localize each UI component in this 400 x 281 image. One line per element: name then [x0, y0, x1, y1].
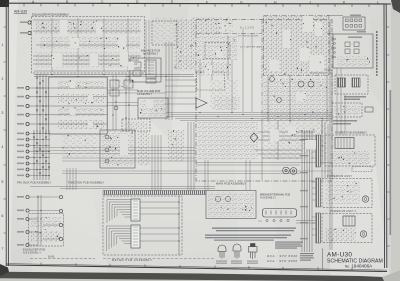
wires volume to main pcb	[165, 80, 196, 104]
bottom shadow band	[0, 272, 394, 281]
vertical bundle right of main pcb	[322, 120, 328, 178]
phones jack 2	[352, 78, 360, 87]
tape jack stub wires	[29, 134, 50, 176]
flat amp dashed sub-box	[152, 21, 177, 45]
svg-text:MAIN PCB ASSEMBLY: MAIN PCB ASSEMBLY	[216, 182, 246, 186]
phones jack 1	[338, 78, 346, 87]
svg-text:DCA : STK 8040: DCA : STK 8040	[267, 254, 297, 258]
power block 2 dashed	[322, 179, 372, 208]
svg-text:ST PRODUCER: ST PRODUCER	[238, 36, 258, 38]
AC outlet	[360, 231, 366, 237]
svg-text:POWER/CB ASSY 2: POWER/CB ASSY 2	[330, 210, 357, 213]
transformer T2	[343, 216, 355, 226]
note text line 2	[205, 235, 291, 236]
rear jack junction dots	[37, 196, 41, 232]
eq component cluster row3	[36, 52, 140, 68]
function transistors Q5 Q6 Q7	[105, 135, 109, 139]
eq-to-selector wires	[34, 75, 194, 77]
meter IC2	[131, 225, 140, 248]
power amp lower cluster	[263, 122, 327, 160]
bottom ruler tick marks	[41, 263, 352, 271]
harness-to-block stub wires	[312, 140, 316, 235]
rear jack stub wires	[29, 197, 59, 245]
op-amp U1 triangle	[196, 98, 207, 108]
relay box components	[208, 192, 254, 217]
breaker terminal strip	[263, 209, 297, 218]
power block2 components	[326, 181, 360, 204]
svg-text:EQUALIZER PCB ASSEMBLY: EQUALIZER PCB ASSEMBLY	[32, 13, 69, 17]
loudness components	[124, 121, 148, 129]
right column vertical wires	[330, 20, 332, 250]
jack labels	[20, 21, 27, 23]
driver transistors Q3 Q4	[270, 77, 275, 82]
svg-text:A-1200: A-1200	[240, 27, 255, 30]
frame: bottom ruler line (sloped)	[6, 265, 387, 272]
protection pin circles left	[334, 38, 336, 58]
svg-text:AM-U30: AM-U30	[327, 252, 352, 259]
phones jack PCB label	[344, 96, 366, 98]
input jack column (tuner/cd/aux)	[26, 86, 29, 125]
transformer T1	[335, 138, 354, 149]
power connector strip 3	[316, 213, 321, 243]
vertical drops center bottom	[205, 160, 250, 190]
protection inner squares	[345, 42, 359, 54]
long wires function to main	[33, 148, 196, 162]
function switch solid box	[100, 130, 135, 168]
svg-text:POWER PCB ASSEMBLY: POWER PCB ASSEMBLY	[335, 131, 367, 135]
wires bottom center horizontals	[30, 187, 215, 189]
phones jack PCB dashed box	[335, 75, 368, 94]
UL note small text	[275, 242, 303, 249]
AC plug P1	[362, 196, 368, 202]
long wires to record out	[62, 171, 332, 174]
svg-text:4: 4	[2, 145, 4, 149]
tape jack labels	[17, 133, 24, 177]
meter connector strip	[103, 191, 206, 195]
paper wrinkle shading	[0, 0, 18, 281]
svg-text:ASSEMBLY: ASSEMBLY	[260, 197, 276, 200]
speaker PCB assembly vertical text	[376, 31, 378, 76]
rec out components column	[138, 131, 150, 165]
power connector strip 2	[316, 178, 321, 207]
mid dashed sub-box	[197, 72, 225, 90]
selector PCB solid outline	[49, 77, 107, 134]
transistor package TO-92 drawing	[218, 245, 226, 259]
main horizontal wire bundle	[166, 113, 332, 121]
junction dots on eq-selector wires	[51, 74, 166, 77]
scanner background right of paper edge	[391, 0, 400, 281]
rear jack components row1	[31, 217, 61, 227]
wires between EQ and flat amp	[146, 20, 149, 75]
svg-text:ASSEMBLY: ASSEMBLY	[23, 251, 41, 255]
speaker terminal label	[350, 15, 361, 17]
rec switch cluster	[168, 130, 184, 162]
tone lower cluster	[197, 62, 231, 76]
mid components cluster	[210, 80, 238, 110]
svg-text:AM-U30: AM-U30	[14, 10, 27, 14]
svg-text:B ASL: B ASL	[48, 256, 55, 259]
bal/vol long verticals right	[166, 42, 172, 120]
jack labels column2	[17, 87, 24, 125]
jack-to-bus horizontal wires	[29, 88, 107, 124]
dashed signal line B	[30, 258, 95, 260]
svg-text:F: F	[206, 0, 208, 4]
protection lower components	[337, 56, 370, 66]
selector row 2 components	[58, 94, 104, 103]
vertical wires to meter	[152, 135, 161, 192]
eq internal wires	[33, 20, 144, 71]
head phone PCB label	[333, 120, 357, 122]
tape bus vertical wires	[34, 130, 49, 180]
vertical wires power amp	[262, 76, 327, 180]
wires speaker area down	[337, 68, 345, 135]
protection label	[348, 37, 362, 39]
function left cluster	[62, 133, 97, 157]
tape jack column circles	[26, 132, 29, 177]
svg-text:6: 6	[2, 214, 4, 218]
bottom row cluster	[198, 122, 258, 160]
svg-text:FUNCTION PCB ASSEMBLY: FUNCTION PCB ASSEMBLY	[68, 181, 104, 185]
vertical wires center	[200, 28, 252, 112]
headphone amp dashed box	[332, 103, 362, 117]
selector row 1 components	[58, 80, 104, 89]
power amp upper dense cluster	[263, 16, 329, 76]
power block1 components	[330, 151, 370, 164]
right paper-edge shadow line	[390, 90, 392, 235]
rear jack dashed box	[29, 214, 64, 247]
meter right wires	[140, 202, 179, 241]
phono input jack J1	[28, 21, 31, 24]
function switch components	[102, 132, 133, 167]
pre-out jacks right column	[59, 195, 62, 240]
wires across volume area	[107, 90, 166, 106]
main PCB internal dash-dot divider horizontal	[196, 33, 262, 35]
volume pot circle	[114, 106, 118, 110]
rear jack vertical wires	[38, 195, 41, 246]
power amp mid cluster	[263, 78, 329, 120]
svg-text:2: 2	[2, 77, 4, 81]
speaker terminal squares row1	[346, 19, 362, 27]
DCA ACA handwritten note	[266, 254, 297, 263]
frame: left ruler double line	[6, 3, 8, 266]
tone dashed sub-box	[205, 43, 230, 59]
equalizer PCB assembly dashed outline	[32, 17, 145, 74]
power block 1 dashed	[325, 135, 375, 166]
bus junction dots	[36, 77, 46, 124]
meter nested wiring fan upper	[107, 200, 131, 224]
wires main to speaker blocks	[310, 16, 343, 74]
speaker terminal block	[343, 17, 365, 30]
svg-text:ACA : STK 8050: ACA : STK 8050	[266, 259, 297, 263]
meter nested wiring fan lower	[107, 226, 132, 251]
selector right boundary line	[106, 77, 108, 130]
volume top row component boxes	[110, 80, 133, 96]
speaker SP1	[283, 167, 290, 174]
volume top row texture	[110, 79, 134, 88]
eq component cluster row2	[40, 37, 140, 49]
scattered dark component accents	[35, 19, 370, 241]
breaker strip pins	[266, 211, 291, 215]
speaker selector label	[357, 31, 366, 33]
package labels	[216, 261, 258, 264]
paper-colored gaps to break texture uniformity	[52, 16, 324, 155]
transistor package TO-92L drawing	[233, 244, 241, 259]
main volume block components	[140, 100, 166, 116]
scanner background below paper	[0, 277, 400, 281]
wires main pcb to power connector	[255, 132, 315, 158]
bottom-right curled corner light patch	[382, 271, 400, 281]
headphone amp components	[334, 105, 360, 115]
relay/terminal box on main pcb	[206, 191, 256, 219]
rear jack components row2	[31, 231, 61, 242]
left ruler tick marks and digits	[3, 27, 6, 233]
svg-text:ASSEMBLY: ASSEMBLY	[143, 53, 158, 56]
rear jack circles	[26, 195, 29, 246]
svg-text:3: 3	[2, 111, 4, 115]
power block 3 dashed	[322, 214, 372, 243]
svg-text:J: J	[309, 1, 311, 5]
svg-text:7: 7	[2, 247, 4, 251]
top ruler tick marks	[24, 3, 369, 7]
selector row 3 components	[58, 107, 104, 116]
mid small cluster	[214, 96, 240, 110]
volume area long verticals	[113, 75, 129, 130]
power connector strip 1	[316, 135, 321, 167]
volume area junction dots	[112, 89, 129, 118]
svg-text:LF LIMITER AMP: LF LIMITER AMP	[240, 46, 263, 49]
relay transistor circles	[215, 196, 220, 201]
svg-text:ASSEMBLY: ASSEMBLY	[137, 93, 152, 96]
svg-text:L: L	[377, 1, 379, 5]
breaker output wires	[258, 221, 316, 224]
vertical wires function to meter strip	[67, 168, 76, 190]
svg-text:No. 1640406A: No. 1640406A	[345, 264, 373, 269]
balance block solid box	[130, 58, 161, 82]
transistor package TO-220 drawing	[249, 244, 258, 260]
power amp dash-dot sub-box	[264, 16, 330, 76]
power block3 components	[326, 228, 356, 241]
top ruler letters	[32, 0, 379, 5]
svg-text:POWER/CB ASSY: POWER/CB ASSY	[327, 175, 352, 178]
harness wire labels	[300, 139, 308, 239]
meter IC1	[131, 199, 140, 221]
loudness dashed box	[122, 119, 150, 131]
bundle junction dots	[199, 112, 322, 121]
note text line 1	[212, 228, 296, 229]
meter area dashes bottom	[103, 258, 215, 260]
bottom-left dark wedge	[0, 264, 9, 276]
selector row 4 components	[58, 120, 104, 129]
small switch box	[365, 107, 373, 112]
output transistors Q1 Q2	[298, 81, 304, 87]
flat amp component cluster (right of EQ)	[153, 18, 176, 45]
svg-text:PIN JACK PCB ASSEMBLY: PIN JACK PCB ASSEMBLY	[17, 181, 51, 185]
balance pot tall box	[146, 60, 156, 78]
UL CSA note block	[300, 253, 314, 261]
tape bus junction dots	[33, 133, 49, 176]
right ruler tick marks	[386, 27, 390, 246]
wires below bundle to power area	[196, 163, 332, 166]
protection relay block	[333, 34, 373, 68]
tape bus resistor ticks	[33, 136, 49, 174]
top-left black registration mark	[0, 0, 9, 7]
balance bottom tag	[146, 79, 156, 83]
vertical harness at x190	[188, 122, 194, 190]
meter right rail	[178, 196, 180, 255]
main PCB dash-dot outline	[196, 20, 332, 182]
frame: right border double line	[384, 4, 387, 268]
tone control dense cluster	[192, 17, 218, 35]
tone mid cluster	[197, 36, 237, 60]
breaker lower circles	[266, 219, 289, 221]
bus vertical wires	[37, 74, 46, 134]
phono input jack J2	[28, 31, 31, 34]
svg-text:1: 1	[2, 43, 4, 47]
components right of bal jack	[178, 55, 196, 73]
main volume block solid box	[138, 98, 168, 118]
svg-text:5: 5	[2, 180, 4, 184]
top-right dark scan edge	[391, 0, 400, 13]
frame: top ruler line	[6, 2, 391, 5]
title block left border	[322, 249, 324, 270]
balance inner square 2	[133, 70, 141, 76]
bus resistor ticks	[36, 82, 46, 129]
flat amp dense strip	[174, 19, 196, 70]
eq component cluster row1	[36, 21, 140, 34]
rear jack labels	[17, 196, 24, 246]
balance inner square 1	[133, 62, 141, 68]
fuse label box	[352, 167, 372, 172]
speaker SP2	[290, 168, 297, 175]
main PCB internal dash-dot divider vertical	[261, 20, 263, 121]
meter rail dots	[178, 201, 179, 241]
eq vertical wires	[52, 18, 128, 72]
meter PCB dashed outline	[103, 196, 182, 255]
svg-text:G: G	[240, 0, 243, 4]
bridge rectifier D1	[250, 133, 258, 142]
harness vertical wires	[302, 130, 312, 252]
